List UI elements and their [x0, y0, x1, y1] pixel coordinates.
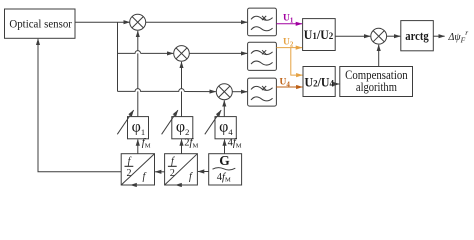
wire: U2/U4 output to compensation box — [335, 83, 339, 85]
optical sensor box — [5, 9, 76, 38]
frequency divider D1 box — [121, 154, 154, 185]
frequency divider D2 box — [165, 154, 198, 185]
filter F1 box (low-pass) — [248, 8, 277, 36]
wire: M4 output to arctg box — [387, 35, 401, 37]
wire U2: filter F2 output to U1/U2 box (orange) — [276, 47, 302, 49]
wire: M2 output to filter F2 — [189, 52, 247, 54]
phi1 variable arrow — [117, 110, 133, 134]
wire: generator G up to phi4 — [224, 140, 226, 154]
divider U2/U4 box — [303, 67, 335, 97]
arctg box — [401, 21, 434, 51]
divider D1 bottom-edge arrow — [131, 184, 141, 186]
svg-text:G: G — [219, 153, 230, 168]
multiplier M3 — [216, 84, 232, 100]
filter F3 box (low-pass) — [248, 78, 277, 106]
generator sine wave — [213, 168, 236, 170]
phi4 variable arrow — [205, 110, 221, 134]
divider U1/U2 box — [303, 19, 336, 51]
wire U2 branch: down and into U2/U4 box (orange) — [291, 48, 303, 76]
filter F2 box (low-pass) — [248, 42, 277, 70]
wire: compensation box up to multiplier M4 — [378, 45, 380, 67]
wire: U1/U2 output to multiplier M4 — [335, 35, 370, 37]
wire: divider D1 up to phi1 — [137, 140, 139, 154]
wire: vertical from phi2 up to multiplier M2 bottom — [181, 62, 183, 117]
wire: M1 output to filter F1 — [146, 21, 248, 23]
phase shifter phi1 box — [128, 117, 149, 139]
svg-text:arctg: arctg — [405, 28, 429, 43]
svg-text:2: 2 — [127, 168, 132, 179]
wire U1: filter F1 output to U1/U2 box (magenta) — [276, 23, 302, 25]
wire: sensor output to multiplier M1 — [75, 21, 130, 23]
multiplier M1 — [130, 14, 146, 30]
wire: vertical from phi4 up to multiplier M3 bottom — [223, 100, 225, 116]
generator G box — [209, 154, 242, 185]
wire: vertical from phi1 up to multiplier M1 bottom — [137, 31, 139, 117]
wire: G output to divider D2 — [198, 171, 209, 173]
wire: divider D2 up to phi2 — [181, 140, 183, 154]
svg-text:algorithm: algorithm — [356, 79, 397, 94]
wire: branch to multiplier M2 with hop over phi1 line — [118, 51, 141, 54]
multiplier M4 — [371, 28, 387, 44]
phase shifter phi2 box — [172, 117, 193, 139]
wire: M3 output to filter F3 — [232, 91, 247, 93]
wire: branch to multiplier M3 with hops over phi1 and phi2 lines — [118, 89, 185, 92]
svg-text:2: 2 — [170, 168, 175, 179]
divider D2 bottom-edge arrow — [176, 184, 186, 186]
multiplier M2 — [174, 46, 190, 62]
wire: D2 output to divider D1 — [155, 171, 165, 173]
wire: D1 output left and up to optical sensor — [38, 39, 121, 172]
compensation algorithm box — [340, 67, 413, 97]
phase shifter phi4 box — [215, 117, 236, 139]
phi2 variable arrow — [162, 110, 178, 134]
wire: branch vertical from node at x=117.5 down — [117, 22, 119, 91]
svg-text:Optical sensor: Optical sensor — [9, 16, 72, 30]
wire U4: filter F3 output to U2/U4 box (dark orange) — [276, 86, 302, 88]
wire: arctg output arrow — [433, 35, 444, 37]
